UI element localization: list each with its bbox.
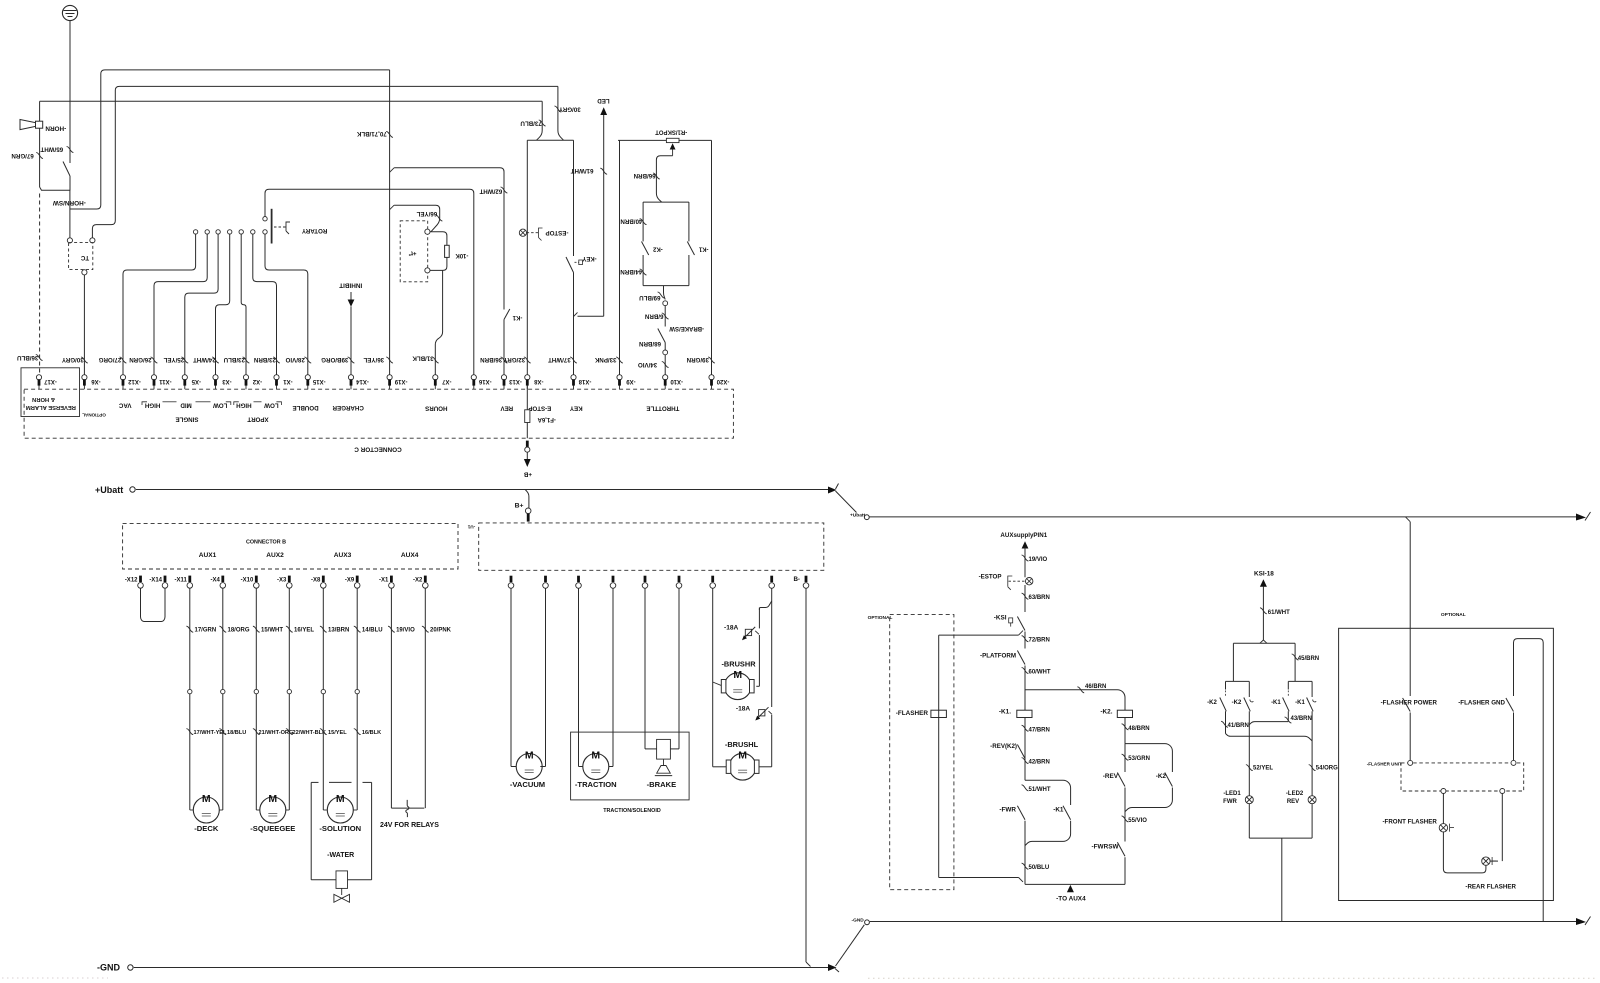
svg-text:-BRAKE/SW: -BRAKE/SW <box>669 325 704 331</box>
svg-text:40/BRN: 40/BRN <box>620 217 643 224</box>
wire -X8 through fuse to B+ pin <box>526 386 528 410</box>
svg-text:19/VIO: 19/VIO <box>396 628 415 634</box>
svg-text:THROTTLE: THROTTLE <box>646 404 679 411</box>
controller -U1 (dashed box) <box>479 523 824 570</box>
svg-text:6/BRN: 6/BRN <box>644 313 663 320</box>
battery 24V FOR RELAYS <box>391 807 424 809</box>
pin -X19 (CONNECTOR C) <box>389 385 391 389</box>
pin -X16 (CONNECTOR C) <box>473 385 475 389</box>
pin -X1 (CONNECTOR C) <box>276 385 278 389</box>
wire front to rear flasher <box>1443 832 1486 873</box>
wire flasher top tap <box>939 634 1019 636</box>
svg-text:-X16: -X16 <box>478 378 491 384</box>
svg-text:39B/ORG: 39B/ORG <box>321 356 348 363</box>
svg-text:30/GRY: 30/GRY <box>61 356 84 363</box>
junction arrow to right section (-GND) <box>828 964 837 971</box>
wire junction X19 to -X13 (62/WHT) <box>390 168 395 173</box>
svg-text:72/BRN: 72/BRN <box>1029 638 1050 644</box>
wire rotary bottom contact to -X15 (28/VIO) <box>265 234 308 375</box>
svg-text:-K1: -K1 <box>1053 807 1064 814</box>
svg-text:-TO AUX4: -TO AUX4 <box>1056 896 1086 903</box>
svg-text:-X10: -X10 <box>670 378 683 384</box>
wire flasher power feed from +Ubatt <box>1406 517 1411 522</box>
pin -X12 (CONNECTOR C) <box>122 385 124 389</box>
wire 14/BLU / 16/BLK (-X9 to -SOLUTION) <box>356 589 358 811</box>
svg-text:INHIBIT: INHIBIT <box>339 281 362 288</box>
svg-text:36/BRN: 36/BRN <box>480 356 503 363</box>
svg-text:23/BLU: 23/BLU <box>223 356 245 363</box>
svg-text:-REAR FLASHER: -REAR FLASHER <box>1465 884 1516 891</box>
wire 73/BLU drop <box>537 101 543 140</box>
svg-text:SINGLE: SINGLE <box>175 416 198 423</box>
svg-text:-X14: -X14 <box>149 577 162 583</box>
svg-text:-X1: -X1 <box>379 577 389 583</box>
motor -VACUUM with wires <box>510 589 512 767</box>
wire 18/ORG / 18/BLU (-X4 to -DECK) <box>222 589 224 811</box>
svg-text:46/BRN: 46/BRN <box>1085 684 1106 690</box>
wire -X8 riser 32/GRY <box>526 140 528 375</box>
svg-text:44/BRN: 44/BRN <box>620 268 643 275</box>
switch -BRAKE/SW <box>658 329 665 343</box>
sensor +t box (dashed) with terminals <box>400 221 428 282</box>
wire 34/VIO to -X10 <box>664 355 666 375</box>
connector box CONNECTOR C (dashed) <box>24 389 733 438</box>
pin -X9 (CONNECTOR B) <box>356 576 359 582</box>
svg-text:-X11: -X11 <box>174 577 187 583</box>
resistor -10K <box>430 232 447 246</box>
svg-text:30/GRY: 30/GRY <box>558 105 581 112</box>
switch -HORN/SW <box>63 162 70 177</box>
connector splice (circle) <box>663 301 668 306</box>
svg-text:& HORN: & HORN <box>32 396 55 402</box>
dashed optional wire to -X17 <box>39 194 41 375</box>
svg-text:VAC: VAC <box>118 401 131 408</box>
wire 67/GRN (horn to switch) <box>39 101 41 121</box>
svg-text:60/WHT: 60/WHT <box>1029 670 1051 676</box>
horn -HORN <box>20 120 36 130</box>
svg-text:+Ubatt: +Ubatt <box>95 485 123 495</box>
motor -DECK <box>190 809 194 811</box>
wire 70,71/BLK / 36/YEL (-X19 riser) <box>389 70 391 375</box>
svg-text:-F1,6A: -F1,6A <box>537 416 556 422</box>
svg-text:41/BRN: 41/BRN <box>1228 723 1249 729</box>
svg-text:M: M <box>525 750 534 762</box>
wire 16/YEL / 22/WHT-BLK (-X3 to -SQUEEGEE) <box>288 589 290 811</box>
svg-text:FWR: FWR <box>1223 799 1237 805</box>
svg-text:AUX3: AUX3 <box>334 552 352 559</box>
svg-text:61/WHT: 61/WHT <box>1268 610 1290 616</box>
svg-text:14/BLU: 14/BLU <box>362 628 383 634</box>
svg-text:OPTIONAL: OPTIONAL <box>1441 612 1466 618</box>
connector pin B+ below CONNECTOR C <box>526 441 529 447</box>
box REVERSE ALARM & HORN <box>21 368 80 417</box>
pin -X5 (CONNECTOR C) <box>184 385 186 389</box>
loop -FWR / -K1 contacts <box>1025 780 1071 805</box>
svg-text:B-: B- <box>793 576 800 583</box>
pin -X8 (CONNECTOR B) <box>322 576 325 582</box>
wire 69/BLU <box>664 286 666 300</box>
fork to contact pairs <box>1260 640 1264 643</box>
svg-text:34/VIO: 34/VIO <box>638 361 657 368</box>
svg-text:DOUBLE: DOUBLE <box>292 404 318 411</box>
svg-text:-K1: -K1 <box>698 245 708 251</box>
svg-text:-SQUEEGEE: -SQUEEGEE <box>250 824 295 833</box>
svg-text:-FLASHER: -FLASHER <box>896 710 929 717</box>
svg-text:AUXsupplyPIN1: AUXsupplyPIN1 <box>1000 532 1047 539</box>
svg-text:-DECK: -DECK <box>194 824 219 833</box>
svg-text:OPTIONAL: OPTIONAL <box>868 615 893 621</box>
wire B+ from rail into controller <box>525 490 529 509</box>
pin -X13 (CONNECTOR C) <box>503 385 505 389</box>
svg-text:-X18: -X18 <box>578 378 591 384</box>
pushbutton -ESTOP (top) <box>519 229 526 236</box>
svg-text:-X6: -X6 <box>91 378 101 384</box>
pin -X14 (CONNECTOR B) <box>164 576 167 582</box>
parallel contacts -K2/-K1 (throttle) <box>643 201 689 203</box>
svg-text:15/WHT: 15/WHT <box>261 628 283 634</box>
pin -X11 (CONNECTOR C) <box>153 385 155 389</box>
svg-text:-X2: -X2 <box>413 577 423 583</box>
wire rotary top contact to -X16 <box>265 189 474 375</box>
svg-text:24V FOR RELAYS: 24V FOR RELAYS <box>380 822 439 829</box>
svg-text:22/WHT-BLK: 22/WHT-BLK <box>293 730 327 736</box>
pin -X12 (CONNECTOR B) <box>139 576 142 582</box>
fuse -F1,6A <box>525 410 530 423</box>
svg-text:47/BRN: 47/BRN <box>1029 727 1050 733</box>
wire 15/WHT / 21/WHT-ORG (-X10 to -SQUEEGEE) <box>255 589 257 811</box>
svg-text:CONNECTOR B: CONNECTOR B <box>246 540 286 546</box>
motor -TRACTION with wires <box>578 589 580 767</box>
svg-text:-X20: -X20 <box>716 378 729 384</box>
pin of -U1 <box>711 576 714 582</box>
svg-text:32/GRY: 32/GRY <box>503 356 526 363</box>
svg-text:MID: MID <box>180 401 192 408</box>
svg-text:23/BRN: 23/BRN <box>253 356 276 363</box>
svg-text:AUX2: AUX2 <box>266 552 284 559</box>
component TC (dashed box with terminals) <box>69 243 93 270</box>
rail end arrow (+Ubatt) <box>1576 514 1586 521</box>
wire -X20 riser 39/GRN <box>711 140 713 374</box>
wire 31/BLK sensor to -X7 <box>435 270 442 374</box>
svg-text:28/VIO: 28/VIO <box>285 356 304 363</box>
svg-text:39/GRN: 39/GRN <box>686 356 709 363</box>
svg-text:B+: B+ <box>515 503 524 510</box>
svg-text:17/GRN: 17/GRN <box>195 628 217 634</box>
svg-text:36/YEL: 36/YEL <box>363 356 384 363</box>
wire right brush feed with jog <box>771 589 773 603</box>
svg-text:-X3: -X3 <box>222 378 232 384</box>
svg-text:-X12: -X12 <box>128 378 141 384</box>
wire LED returns to -GND rail <box>1248 804 1250 838</box>
svg-text:-X8: -X8 <box>311 577 321 583</box>
svg-text:52/YEL: 52/YEL <box>1253 766 1273 772</box>
pin -X2 (CONNECTOR C) <box>245 385 247 389</box>
svg-text:16/YEL: 16/YEL <box>294 628 314 634</box>
svg-text:M: M <box>268 793 277 805</box>
svg-text:-X17: -X17 <box>44 378 57 384</box>
pin of -U1 <box>678 576 681 582</box>
svg-text:-BRUSHR: -BRUSHR <box>721 659 756 668</box>
wire 6/BRN <box>664 306 666 327</box>
svg-text:TRACTION/SOLENOID: TRACTION/SOLENOID <box>603 808 661 814</box>
svg-text:-REV(K2): -REV(K2) <box>990 743 1017 750</box>
wire to LED2 side (crossover) <box>1226 734 1313 741</box>
svg-text:-X9: -X9 <box>345 577 355 583</box>
svg-text:-K2: -K2 <box>1232 700 1242 706</box>
pin -X6 (CONNECTOR C) <box>83 385 85 389</box>
wire 63/BRN <box>1024 585 1026 612</box>
connector splice (circle) <box>663 350 668 355</box>
svg-text:-X2: -X2 <box>252 378 262 384</box>
svg-text:-X12: -X12 <box>125 577 138 583</box>
potentiometer -R1/SKPOT <box>618 139 712 141</box>
pin -X15 (CONNECTOR C) <box>307 385 309 389</box>
svg-text:26/GRN: 26/GRN <box>129 356 152 363</box>
svg-text:-BRUSHL: -BRUSHL <box>725 740 759 749</box>
svg-text:62/WHT: 62/WHT <box>479 187 502 194</box>
svg-text:-X1: -X1 <box>283 378 293 384</box>
rail end arrow (-GND) <box>1576 918 1586 925</box>
svg-text:-K1: -K1 <box>512 314 522 320</box>
svg-text:-TRACTION: -TRACTION <box>575 780 617 789</box>
wire 19/VIO (-X1 to relay battery) <box>390 589 392 809</box>
svg-text:25/YEL: 25/YEL <box>163 356 184 363</box>
wire 17/GRN / 17/WHT-YEL (-X11 to -DECK) <box>189 589 191 811</box>
wire (line C) horn to 73/BLU drop <box>40 100 543 102</box>
wire -X18 riser 37/WHT <box>573 140 575 256</box>
wire rotary c6 to -X1 (23/BRN) <box>253 234 277 375</box>
svg-text:13/BRN: 13/BRN <box>328 628 349 634</box>
svg-text:73/BLU: 73/BLU <box>520 120 542 127</box>
switch -KEY <box>566 257 574 273</box>
svg-text:-HORN/SW: -HORN/SW <box>52 199 86 206</box>
svg-text:-18A: -18A <box>724 625 739 632</box>
svg-text:-LED2: -LED2 <box>1286 791 1304 797</box>
rotary contact circles <box>193 230 197 234</box>
svg-text:45/BRN: 45/BRN <box>1298 656 1319 662</box>
wire junction X19 to 66/YEL sensor <box>390 205 395 210</box>
wire 30/GRY drop <box>558 86 564 140</box>
svg-text:-VACUUM: -VACUUM <box>510 780 545 789</box>
svg-text:68/BRN: 68/BRN <box>638 340 661 347</box>
svg-text:67/GRN: 67/GRN <box>11 152 34 159</box>
pin of -U1 <box>510 576 513 582</box>
rotary switch ROTARY <box>271 209 273 244</box>
wire -X9 riser 33/PNK <box>619 140 621 374</box>
pin -X10 (CONNECTOR C) <box>664 385 666 389</box>
svg-text:E-STOP: E-STOP <box>528 404 551 411</box>
svg-text:M: M <box>336 793 345 805</box>
svg-text:-X4: -X4 <box>210 577 220 583</box>
svg-text:-X19: -X19 <box>394 378 407 384</box>
svg-text:-K2: -K2 <box>652 245 662 251</box>
svg-text:AUX1: AUX1 <box>199 552 217 559</box>
svg-text:-X10: -X10 <box>241 577 254 583</box>
wire 65/WHT (earth to horn switch) <box>69 21 71 163</box>
svg-text:21/WHT-ORG: 21/WHT-ORG <box>259 730 294 736</box>
pin -X2 (CONNECTOR B) <box>424 576 427 582</box>
svg-text:31/BLK: 31/BLK <box>412 355 434 362</box>
pin -X3 (CONNECTOR C) <box>215 385 217 389</box>
svg-text:18/ORG: 18/ORG <box>228 628 250 634</box>
pin of -U1 <box>612 576 615 582</box>
svg-text:-FWR: -FWR <box>999 807 1016 814</box>
svg-text:66/YEL: 66/YEL <box>416 210 437 217</box>
svg-text:KSI-18: KSI-18 <box>1254 571 1274 578</box>
svg-text:-FLASHER UNIT: -FLASHER UNIT <box>1367 762 1402 767</box>
svg-text:54/ORG: 54/ORG <box>1316 766 1338 772</box>
pin -X18 (CONNECTOR C) <box>573 385 575 389</box>
svg-text:M: M <box>738 749 747 761</box>
svg-text:-GND: -GND <box>97 963 120 973</box>
pin -X1 (CONNECTOR B) <box>390 576 393 582</box>
pin of -U1 <box>770 576 773 582</box>
svg-text:-X15: -X15 <box>312 378 325 384</box>
bus to -TO AUX4 <box>1025 883 1125 885</box>
svg-text:63/BRN: 63/BRN <box>1029 595 1050 601</box>
svg-text:-K1: -K1 <box>1271 700 1281 706</box>
pin -X8 (CONNECTOR C) <box>526 385 528 389</box>
svg-text:42/BRN: 42/BRN <box>1029 760 1050 766</box>
wire loop -X12 to -X14 <box>141 589 166 622</box>
pin of -U1 <box>644 576 647 582</box>
svg-text:CONNECTOR C: CONNECTOR C <box>354 446 402 453</box>
svg-text:70,71/BLK: 70,71/BLK <box>356 130 386 137</box>
svg-text:50/BLU: 50/BLU <box>1029 865 1050 871</box>
wire with arrow to +B <box>526 452 528 459</box>
wire rear flasher return <box>1501 794 1503 862</box>
motor -SOLUTION <box>323 809 327 811</box>
box TRACTION/SOLENOID <box>571 732 690 800</box>
svg-text:XPORT: XPORT <box>247 416 269 423</box>
svg-text:-GND: -GND <box>852 918 865 924</box>
svg-text:-X13: -X13 <box>509 378 522 384</box>
svg-text:20/PNK: 20/PNK <box>430 628 452 634</box>
svg-text:-HORN: -HORN <box>45 125 66 132</box>
svg-text:-18A: -18A <box>736 706 751 713</box>
svg-text:CHARGER: CHARGER <box>332 404 364 411</box>
svg-text:36/BLU: 36/BLU <box>17 354 39 361</box>
pin -X7 (CONNECTOR C) <box>434 385 436 389</box>
svg-text:66/BRN: 66/BRN <box>633 172 656 179</box>
pushbutton -ESTOP (aux chain) <box>1026 578 1033 585</box>
svg-text:ROTARY: ROTARY <box>301 227 327 234</box>
pin -X17 (CONNECTOR C) <box>38 385 40 389</box>
svg-text:HIGH: HIGH <box>144 401 160 408</box>
svg-text:+t°: +t° <box>408 249 417 255</box>
pin -X4 (CONNECTOR B) <box>221 576 224 582</box>
svg-text:33/PNK: 33/PNK <box>594 356 616 363</box>
svg-text:-SOLUTION: -SOLUTION <box>319 824 361 833</box>
svg-text:-KSI: -KSI <box>994 615 1007 622</box>
svg-text:-X3: -X3 <box>277 577 287 583</box>
contact pair -K1/-K1 (LED2 side) <box>1288 680 1312 682</box>
svg-text:16/BLK: 16/BLK <box>362 730 381 736</box>
wire 46/BRN bus to coils <box>1025 690 1125 744</box>
page bottom dotted margin <box>2 977 108 979</box>
svg-text:LOW: LOW <box>213 401 228 408</box>
svg-text:-U1: -U1 <box>467 524 475 529</box>
svg-text:HOURS: HOURS <box>425 404 447 411</box>
svg-text:-PLATFORM: -PLATFORM <box>980 652 1016 659</box>
svg-text:-BRAKE: -BRAKE <box>647 780 677 789</box>
svg-text:-FRONT FLASHER: -FRONT FLASHER <box>1382 819 1437 826</box>
motor -BRUSHL <box>729 753 756 780</box>
svg-text:-ESTOP: -ESTOP <box>979 574 1002 581</box>
wire (line B) TC right to 30/GRY drop <box>92 86 558 237</box>
svg-text:LOW: LOW <box>264 401 279 408</box>
svg-text:+B: +B <box>523 470 532 477</box>
pin B+ of controller -U1 <box>525 508 531 514</box>
svg-text:AUX4: AUX4 <box>401 552 419 559</box>
svg-text:+Ubatt: +Ubatt <box>850 513 865 519</box>
svg-text:-X5: -X5 <box>191 378 201 384</box>
svg-text:37/WHT: 37/WHT <box>548 356 571 363</box>
junction arrow to right section (+Ubatt) <box>828 487 837 494</box>
pin of -U1 <box>577 576 580 582</box>
pin of -U1 <box>544 576 547 582</box>
svg-text:-R1/SKPOT: -R1/SKPOT <box>655 129 687 135</box>
svg-text:M: M <box>733 669 742 681</box>
svg-text:M: M <box>202 793 211 805</box>
wire 54/ORG to -LED2 <box>1311 711 1313 795</box>
svg-text:61/WHT: 61/WHT <box>571 167 594 174</box>
svg-text:-WATER: -WATER <box>327 852 354 859</box>
svg-text:HIGH: HIGH <box>236 401 252 408</box>
wire 66/BRN (wiper) <box>656 156 672 202</box>
svg-text:15/YEL: 15/YEL <box>328 730 347 736</box>
pin -X20 (CONNECTOR C) <box>711 385 713 389</box>
svg-text:-K2: -K2 <box>1156 773 1167 780</box>
wire 52/YEL to -LED1 <box>1248 711 1250 795</box>
svg-text:53/GRN: 53/GRN <box>1128 756 1150 762</box>
svg-text:REVERSE ALARM: REVERSE ALARM <box>26 404 76 410</box>
svg-text:-K1.: -K1. <box>999 709 1011 716</box>
svg-text:27/ORG: 27/ORG <box>98 356 121 363</box>
wire 20/PNK (-X2 to relay battery) <box>424 589 426 809</box>
svg-text:LED: LED <box>597 97 610 104</box>
pot wiper arrow <box>672 149 674 156</box>
wire 13/BRN / 15/YEL (-X8 to -SOLUTION) <box>322 589 324 811</box>
svg-text:-K2: -K2 <box>1207 700 1217 706</box>
svg-text:-X8: -X8 <box>533 378 543 384</box>
svg-text:-K2.: -K2. <box>1100 709 1112 716</box>
wire left brush feed <box>712 589 714 767</box>
svg-text:65/WHT: 65/WHT <box>40 145 63 152</box>
svg-text:48/BRN: 48/BRN <box>1128 726 1149 732</box>
motor -SQUEEGEE <box>256 809 260 811</box>
wire rotary c3 to -X5 (25/YEL) <box>185 234 218 375</box>
wire rotary c5 to -X2 (23/BLU) <box>241 234 246 375</box>
pin -X10 (CONNECTOR B) <box>255 576 258 582</box>
contact -K1 (on -X13 wire) <box>504 309 510 320</box>
svg-text:REV: REV <box>1287 799 1299 805</box>
svg-text:-X14: -X14 <box>356 378 369 384</box>
contact pair -K2/-K2 (LED1 side) <box>1226 680 1250 682</box>
wire 43/BRN crossover to LED1 wire <box>1249 722 1288 725</box>
svg-text:55/VIO: 55/VIO <box>1128 818 1147 824</box>
wire rotary c2 to -X11 (26/GRN) <box>154 234 207 375</box>
box -WATER with valve <box>311 781 318 783</box>
svg-text:-KEY: -KEY <box>582 255 596 261</box>
wire rotary c4 to -X3 (24/WHT) <box>216 234 230 375</box>
svg-text:OPTIONAL: OPTIONAL <box>82 412 106 417</box>
solenoid -BRAKE <box>644 589 646 749</box>
wire 30/GRY TC to -X6 <box>83 275 85 375</box>
pin -X11 (CONNECTOR B) <box>188 576 191 582</box>
wire (line A junction) 70,71/BLK to TC left <box>70 70 390 209</box>
svg-text:19/VIO: 19/VIO <box>1029 557 1048 563</box>
